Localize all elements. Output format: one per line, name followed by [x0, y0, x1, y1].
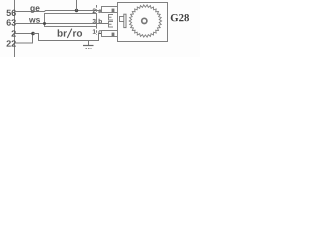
toothed wheel — [129, 5, 161, 37]
component designator G28 — [171, 14, 189, 21]
connector pin label left of ge pin — [93, 8, 96, 13]
wire from terminal 2 — [15, 33, 33, 35]
connector pin label right of ws pin — [99, 19, 102, 24]
wire ge into component gate — [97, 10, 102, 12]
track number 56 — [6, 10, 15, 16]
connector pin label right of ge pin — [98, 10, 101, 14]
pin gate 1 (top) — [102, 7, 118, 13]
sensor pickup pole bar — [124, 14, 126, 27]
pin gate 2 (middle, ws) — [109, 15, 114, 21]
wheel hub — [142, 18, 147, 23]
sensor pickup body — [120, 17, 124, 22]
ground stub from br/ro wire — [88, 41, 90, 46]
connector separation line (dashed) — [96, 5, 98, 35]
ground hatch — [86, 48, 92, 50]
wire label br/ro — [58, 29, 67, 36]
track number 22 — [7, 40, 16, 46]
wire from terminal 22 — [15, 34, 33, 44]
shield box around wires — [45, 14, 97, 27]
wire label ge — [30, 6, 39, 12]
ground bar — [83, 45, 94, 47]
wire ge: rail to shield box — [15, 11, 97, 12]
track number 63 — [7, 19, 16, 25]
track number 2 — [12, 30, 16, 36]
junction node on ge wire — [75, 9, 78, 12]
wire ws: rail to connector — [15, 23, 97, 25]
wire br/ro: junction to connector — [33, 34, 102, 41]
wire ws stub into component gate — [97, 23, 109, 25]
junction node of 2 and 22 — [31, 32, 35, 36]
connector pin label right of br/ro pin — [98, 30, 101, 34]
left rail (current track bus) — [14, 0, 16, 57]
connector pin label left of br/ro pin — [93, 29, 96, 33]
wire label ws — [29, 18, 40, 23]
pin 1 mark inside gate — [112, 9, 115, 13]
slash in br/ro label — [67, 29, 72, 38]
junction node on ws wire at shield box edge — [43, 22, 46, 25]
pin gate 3 (bottom) — [102, 31, 118, 37]
connector pin label left of ws pin — [93, 19, 96, 24]
pin 3 mark inside gate — [112, 33, 115, 37]
wire branch up from junction to top edge — [76, 0, 78, 11]
component G28 outline box — [118, 3, 168, 42]
pin gate 2 lower bracket — [109, 22, 114, 28]
